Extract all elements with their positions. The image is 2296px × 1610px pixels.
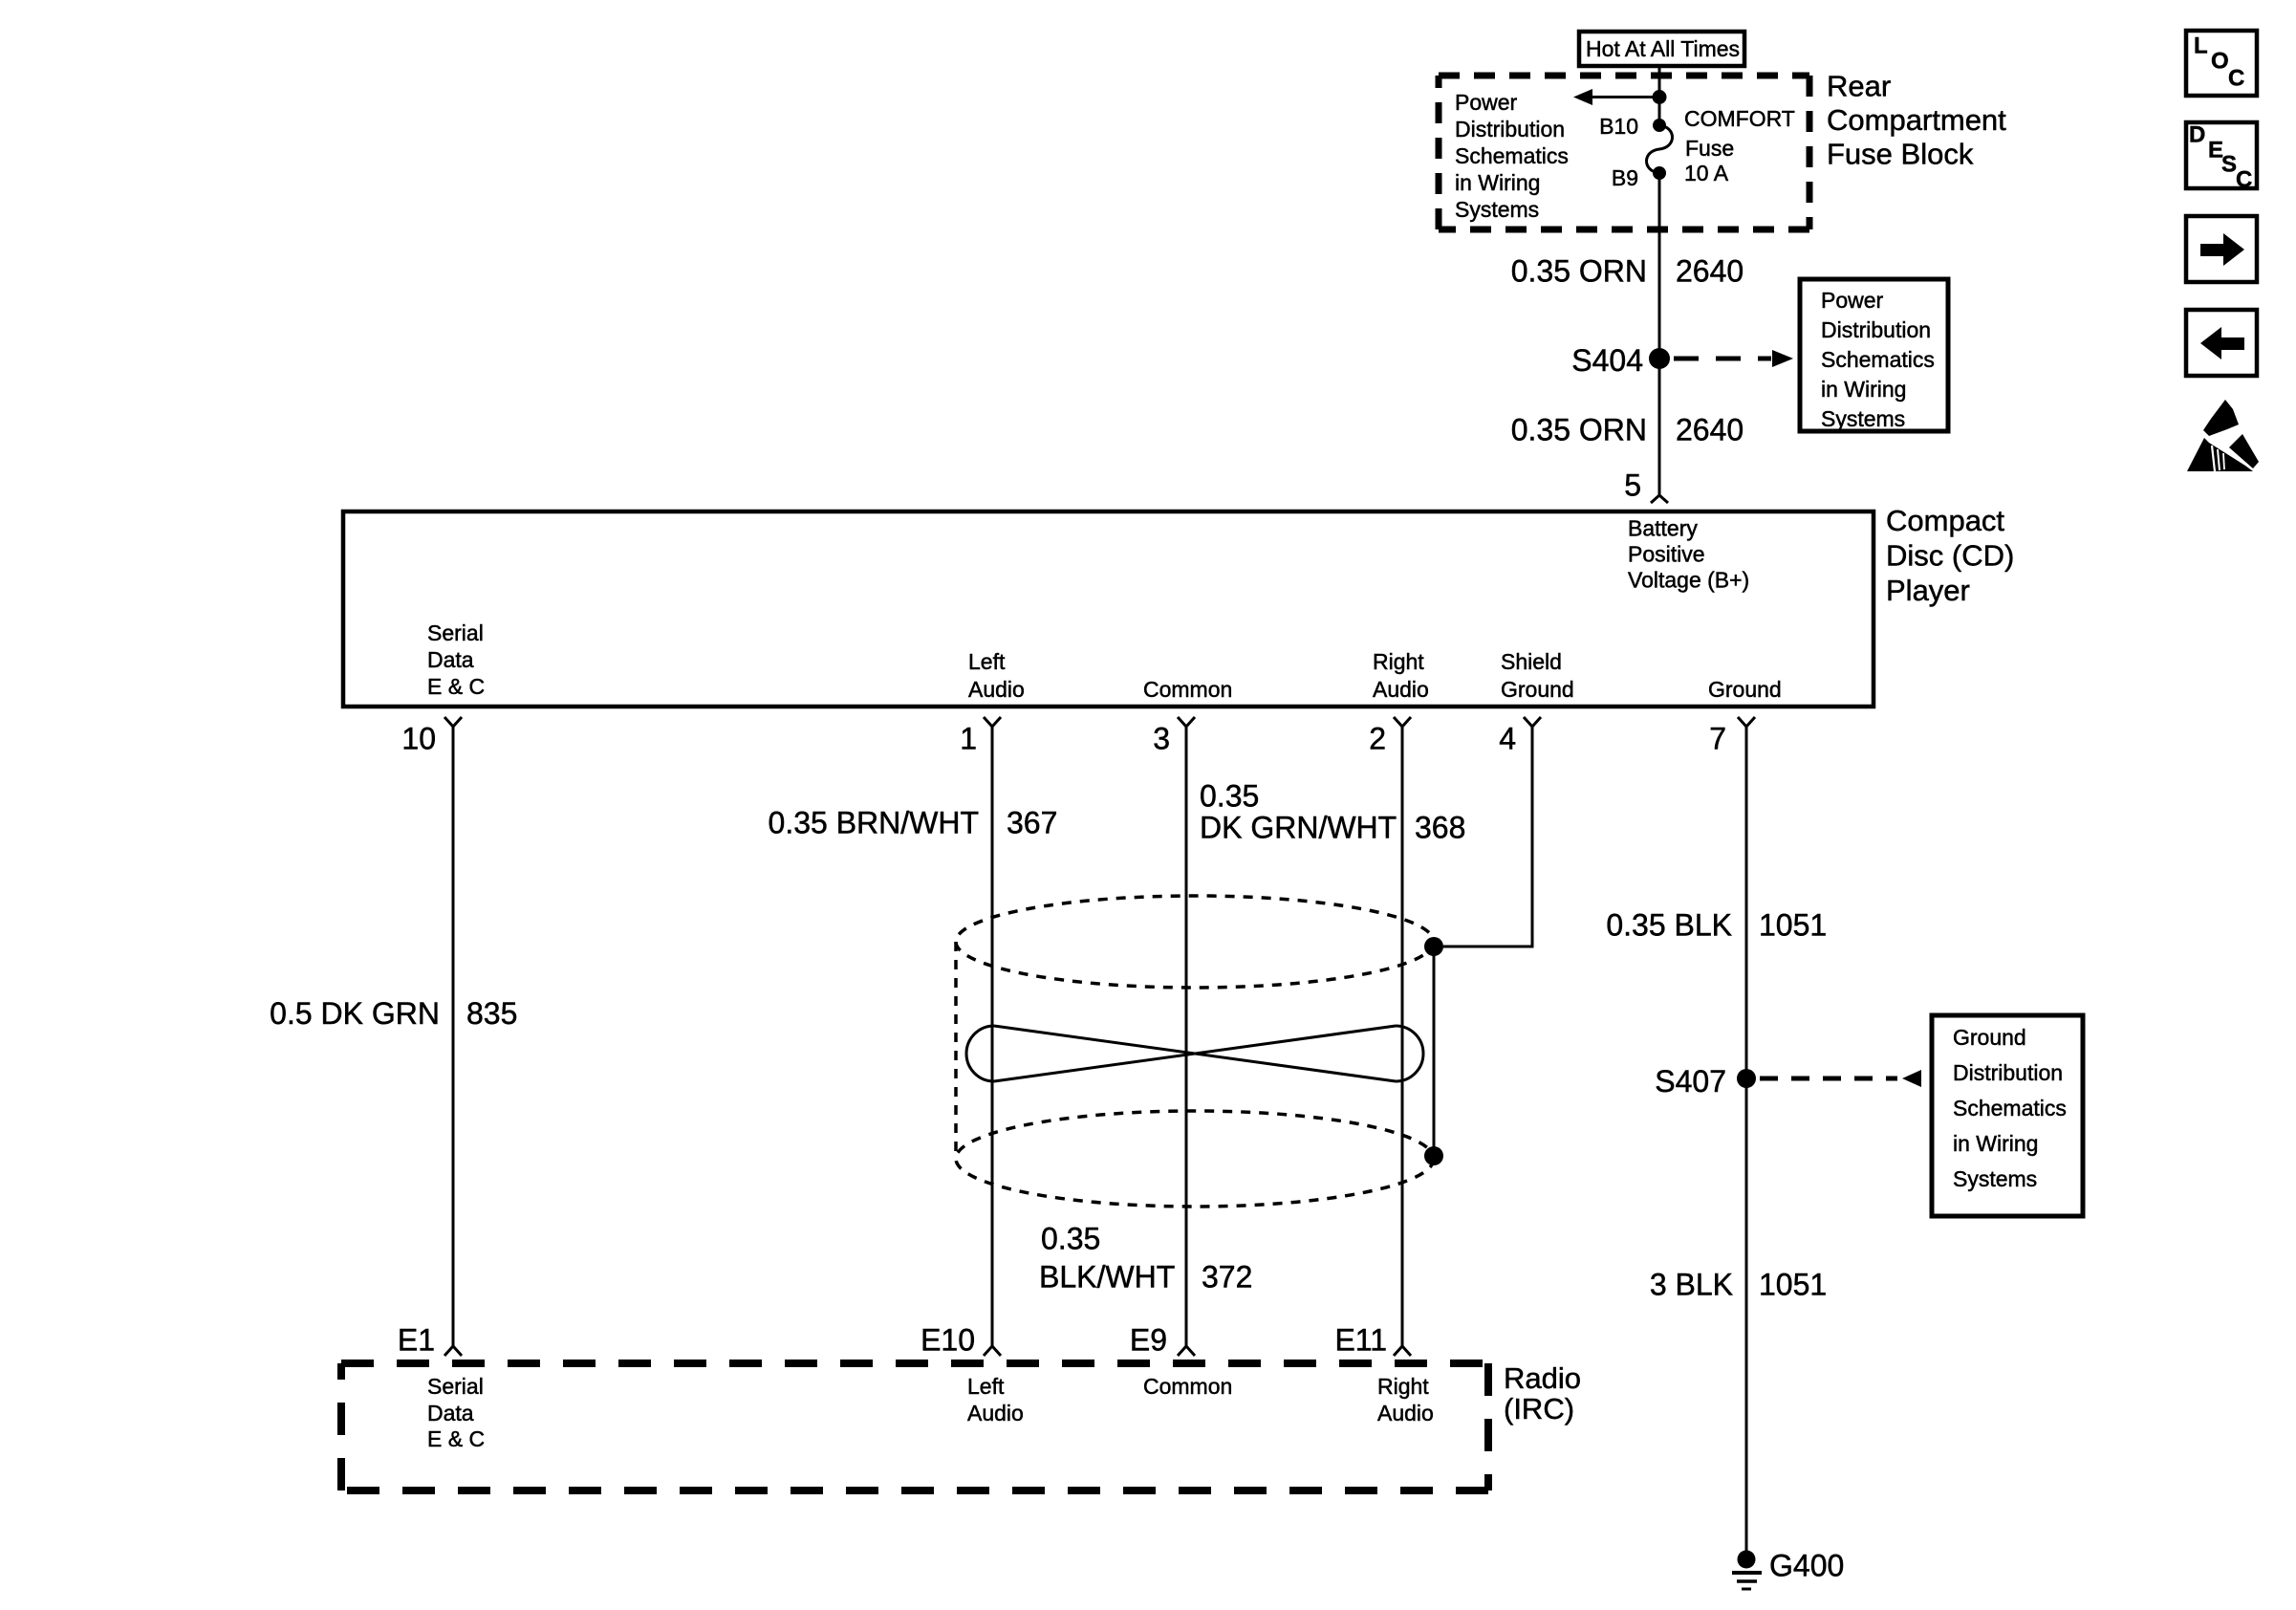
CD pin function labels	[427, 620, 485, 699]
svg-text:Shield: Shield	[1501, 649, 1562, 674]
DESC icon	[2186, 122, 2257, 193]
svg-text:Power: Power	[1821, 288, 1884, 313]
svg-text:S407: S407	[1655, 1064, 1726, 1099]
svg-text:2: 2	[1369, 722, 1386, 756]
svg-text:DK GRN/WHT: DK GRN/WHT	[1200, 811, 1397, 845]
svg-text:Rear: Rear	[1827, 70, 1891, 103]
fuse COMFORT 10A squiggle	[1647, 125, 1673, 173]
svg-text:BLK/WHT: BLK/WHT	[1039, 1260, 1175, 1295]
svg-text:Systems: Systems	[1455, 197, 1539, 222]
svg-text:10 A: 10 A	[1684, 161, 1729, 185]
wire B9 down to CD player pin 5	[1658, 173, 1661, 495]
terminal E10	[921, 1323, 1001, 1358]
svg-text:Fuse: Fuse	[1685, 136, 1734, 161]
svg-text:Power: Power	[1455, 90, 1518, 115]
svg-text:E9: E9	[1130, 1323, 1167, 1358]
wire label 0.35 BLK 1051	[1606, 908, 1827, 943]
right audio wire	[1401, 727, 1404, 1346]
wire label 0.35 BLK/WHT 372	[1039, 1222, 1252, 1295]
serial data wire	[452, 727, 455, 1346]
svg-text:Schematics: Schematics	[1455, 143, 1569, 168]
svg-text:Radio: Radio	[1504, 1361, 1581, 1395]
svg-text:in Wiring: in Wiring	[1953, 1131, 2038, 1156]
splice S404	[1571, 343, 1670, 378]
svg-text:Voltage (B+): Voltage (B+)	[1628, 568, 1749, 593]
svg-text:4: 4	[1499, 722, 1516, 756]
svg-text:D: D	[2189, 122, 2205, 148]
svg-text:B10: B10	[1599, 114, 1638, 139]
svg-text:G400: G400	[1769, 1549, 1844, 1583]
terminal E11	[1334, 1323, 1411, 1358]
svg-text:Compact: Compact	[1886, 504, 2004, 537]
svg-text:0.35 BRN/WHT: 0.35 BRN/WHT	[769, 806, 979, 840]
svg-text:2640: 2640	[1676, 254, 1744, 289]
power distribution schematics reference box	[1800, 279, 1948, 431]
radio box (dashed)	[341, 1363, 1488, 1490]
ESD sensitive icon	[2187, 400, 2259, 471]
svg-text:COMFORT: COMFORT	[1684, 106, 1795, 131]
svg-text:5: 5	[1624, 468, 1641, 503]
svg-text:3 BLK: 3 BLK	[1650, 1268, 1733, 1302]
svg-text:10: 10	[401, 722, 436, 756]
wire label 0.35 DK GRN/WHT 368	[1200, 779, 1465, 845]
ground distribution schematics reference box	[1932, 1015, 2083, 1216]
svg-text:7: 7	[1709, 722, 1726, 756]
svg-text:in Wiring: in Wiring	[1821, 377, 1906, 402]
svg-text:0.35: 0.35	[1200, 779, 1259, 814]
terminal E9	[1130, 1323, 1195, 1358]
svg-text:Common: Common	[1143, 1374, 1232, 1399]
svg-text:Data: Data	[427, 1401, 474, 1425]
svg-text:1: 1	[960, 722, 977, 756]
wire from hot box to fuse	[1658, 68, 1661, 125]
wire label 0.35 ORN 2640 (upper)	[1511, 254, 1744, 289]
battery positive voltage label	[1628, 516, 1749, 593]
branch arrow to power distribution	[1573, 89, 1667, 105]
svg-text:L: L	[2194, 33, 2208, 59]
svg-text:Systems: Systems	[1953, 1166, 2037, 1191]
svg-text:Right: Right	[1373, 649, 1424, 674]
svg-text:Distribution: Distribution	[1953, 1060, 2063, 1085]
svg-text:S404: S404	[1571, 343, 1643, 378]
svg-text:2640: 2640	[1676, 413, 1744, 447]
rear compartment fuse block (dashed box)	[1439, 76, 1809, 229]
svg-text:Ground: Ground	[1953, 1025, 2026, 1050]
svg-text:E & C: E & C	[427, 674, 485, 699]
wire label 0.35 ORN 2640 (lower)	[1511, 413, 1744, 447]
shield (dashed cylinder)	[956, 896, 1434, 1207]
wire label 0.35 BRN/WHT 367	[769, 806, 1058, 840]
svg-text:Positive: Positive	[1628, 542, 1705, 567]
splice S407	[1655, 1064, 1756, 1099]
svg-text:C: C	[2236, 167, 2252, 193]
svg-text:Serial: Serial	[427, 620, 484, 645]
terminal B10	[1599, 114, 1666, 139]
pin 1	[960, 717, 1001, 756]
svg-text:Audio: Audio	[967, 1401, 1024, 1425]
svg-text:E10: E10	[921, 1323, 975, 1358]
svg-text:Ground: Ground	[1708, 677, 1782, 702]
back arrow icon	[2186, 310, 2257, 376]
pin 7	[1709, 717, 1755, 756]
svg-text:Battery: Battery	[1628, 516, 1698, 541]
pin 5	[1624, 468, 1668, 504]
wire label 0.5 DK GRN 835	[270, 996, 517, 1031]
LOC icon	[2186, 31, 2257, 96]
svg-text:Distribution: Distribution	[1821, 317, 1931, 342]
fuse block name label	[1827, 70, 2006, 171]
svg-text:0.5 DK GRN: 0.5 DK GRN	[270, 996, 440, 1031]
svg-text:0.35 BLK: 0.35 BLK	[1606, 908, 1732, 943]
pin 3	[1153, 717, 1195, 756]
dashed reference arrow from S407	[1760, 1070, 1921, 1087]
radio pin function labels	[427, 1374, 485, 1451]
svg-text:Left: Left	[967, 1374, 1005, 1399]
svg-text:Left: Left	[968, 649, 1006, 674]
svg-text:Disc (CD): Disc (CD)	[1886, 539, 2014, 573]
hot-at-all-times label box	[1579, 32, 1744, 66]
svg-text:372: 372	[1202, 1260, 1252, 1295]
svg-text:E11: E11	[1334, 1323, 1387, 1358]
svg-text:Serial: Serial	[427, 1374, 484, 1399]
svg-text:in Wiring: in Wiring	[1455, 170, 1540, 195]
svg-text:3: 3	[1153, 722, 1170, 756]
svg-text:Schematics: Schematics	[1821, 347, 1935, 372]
svg-text:Right: Right	[1377, 1374, 1429, 1399]
dashed reference arrow from S404	[1674, 350, 1793, 367]
shield ground wire	[1443, 727, 1532, 946]
svg-text:B9: B9	[1612, 165, 1638, 190]
svg-text:Hot At All Times: Hot At All Times	[1586, 36, 1740, 61]
CD player name label	[1886, 504, 2014, 607]
svg-text:0.35: 0.35	[1041, 1222, 1100, 1256]
pin 10	[401, 717, 462, 756]
terminal E1	[398, 1323, 462, 1358]
left audio wire	[991, 727, 994, 1346]
fuse value label	[1684, 106, 1795, 185]
pin 4	[1499, 717, 1541, 756]
svg-text:Distribution: Distribution	[1455, 117, 1565, 141]
shield drain wire	[1424, 937, 1443, 1165]
forward arrow icon	[2186, 216, 2257, 282]
svg-text:Audio: Audio	[1377, 1401, 1434, 1425]
ground wire	[1745, 727, 1748, 1559]
svg-text:Ground: Ground	[1501, 677, 1574, 702]
svg-text:Fuse Block: Fuse Block	[1827, 138, 1974, 171]
svg-text:Compartment: Compartment	[1827, 103, 2006, 137]
svg-text:Systems: Systems	[1821, 406, 1905, 431]
svg-text:Schematics: Schematics	[1953, 1096, 2067, 1120]
svg-text:368: 368	[1415, 811, 1465, 845]
terminal B9	[1612, 165, 1666, 190]
svg-text:O: O	[2211, 49, 2229, 75]
svg-text:Audio: Audio	[968, 677, 1025, 702]
svg-text:(IRC): (IRC)	[1504, 1392, 1574, 1425]
svg-text:367: 367	[1007, 806, 1057, 840]
svg-text:S: S	[2221, 152, 2237, 178]
svg-text:1051: 1051	[1759, 908, 1827, 943]
svg-text:Data: Data	[427, 647, 474, 672]
CD player box	[343, 511, 1874, 707]
svg-text:0.35 ORN: 0.35 ORN	[1511, 413, 1647, 447]
power distribution note (inside fuse block)	[1455, 90, 1569, 222]
svg-text:835: 835	[466, 996, 517, 1031]
svg-text:0.35 ORN: 0.35 ORN	[1511, 254, 1647, 289]
radio name label	[1504, 1361, 1581, 1425]
svg-text:Player: Player	[1886, 574, 1970, 607]
twisted pair symbol	[966, 1026, 1423, 1081]
svg-text:E1: E1	[398, 1323, 435, 1358]
ground G400	[1732, 1549, 1844, 1590]
svg-text:1051: 1051	[1759, 1268, 1827, 1302]
svg-text:Audio: Audio	[1373, 677, 1429, 702]
svg-text:E & C: E & C	[427, 1426, 485, 1451]
svg-text:Common: Common	[1143, 677, 1232, 702]
common wire	[1185, 727, 1188, 1346]
svg-text:C: C	[2228, 66, 2244, 92]
wire label 3 BLK 1051	[1650, 1268, 1827, 1302]
pin 2	[1369, 717, 1411, 756]
